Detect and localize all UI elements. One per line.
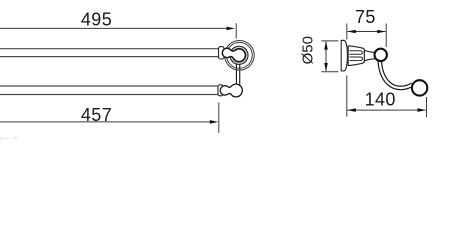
top rail end ball and collar keyhole <box>222 48 245 61</box>
dimension D50 line <box>325 42 327 72</box>
barrel rib slot upper <box>350 51 363 55</box>
wall post arm (front view, vertical tube) <box>236 60 240 88</box>
dimension 140 arrowhead right <box>418 108 427 112</box>
neck to ball (side view) <box>364 50 375 61</box>
dimension D50 arrowhead down <box>324 63 328 72</box>
dimension 140 extension line left <box>346 76 348 117</box>
hook arm tube (side view) <box>380 59 413 88</box>
dimension 75 arrowhead left <box>347 30 356 34</box>
dimension 495 extension line <box>235 23 237 38</box>
dimension 140 extension line right <box>426 97 428 117</box>
top rail <box>0 49 219 57</box>
dimension 140 arrowhead left <box>347 108 356 112</box>
dimension 75 extension line left <box>346 24 348 40</box>
arm end ball (side view) <box>412 80 427 95</box>
bottom rail end cap <box>218 85 223 96</box>
dimension 495 arrowhead <box>227 27 236 31</box>
svg-text:Ø50: Ø50 <box>299 36 316 64</box>
dimension 457 arrowhead <box>210 120 219 124</box>
svg-text:457: 457 <box>81 105 112 125</box>
faint artifact marks bottom-left <box>0 137 18 140</box>
flange barrel with ribs (side view) <box>348 46 364 66</box>
wall plate (side view) <box>341 40 347 71</box>
dimension 75 extension line right <box>385 24 387 48</box>
svg-text:495: 495 <box>81 10 112 30</box>
flange outer circle (front view) <box>225 41 255 71</box>
post ball (side view) <box>375 49 387 61</box>
dimension 75 arrowhead right <box>377 30 386 34</box>
bottom rail <box>0 86 219 95</box>
flange collar ring (front view, bold annulus) <box>229 46 248 65</box>
barrel rib slot lower <box>350 57 363 61</box>
dimension 457 line <box>0 121 214 123</box>
dimension D50 extension line top <box>321 40 338 42</box>
dimension 457 extension line <box>218 103 220 134</box>
svg-text:75: 75 <box>355 7 376 27</box>
dimension D50 arrowhead up <box>324 41 328 50</box>
svg-text:140: 140 <box>365 89 396 109</box>
top rail end cap <box>219 47 225 59</box>
dimension D50 extension line bottom <box>321 71 338 73</box>
dimension 140 line <box>348 109 426 111</box>
flange inner circle (front view) <box>227 42 253 68</box>
dimension 495 line <box>0 27 230 29</box>
bottom rail end double ball (peanut) <box>220 84 242 97</box>
dimension 75 line <box>348 31 386 33</box>
